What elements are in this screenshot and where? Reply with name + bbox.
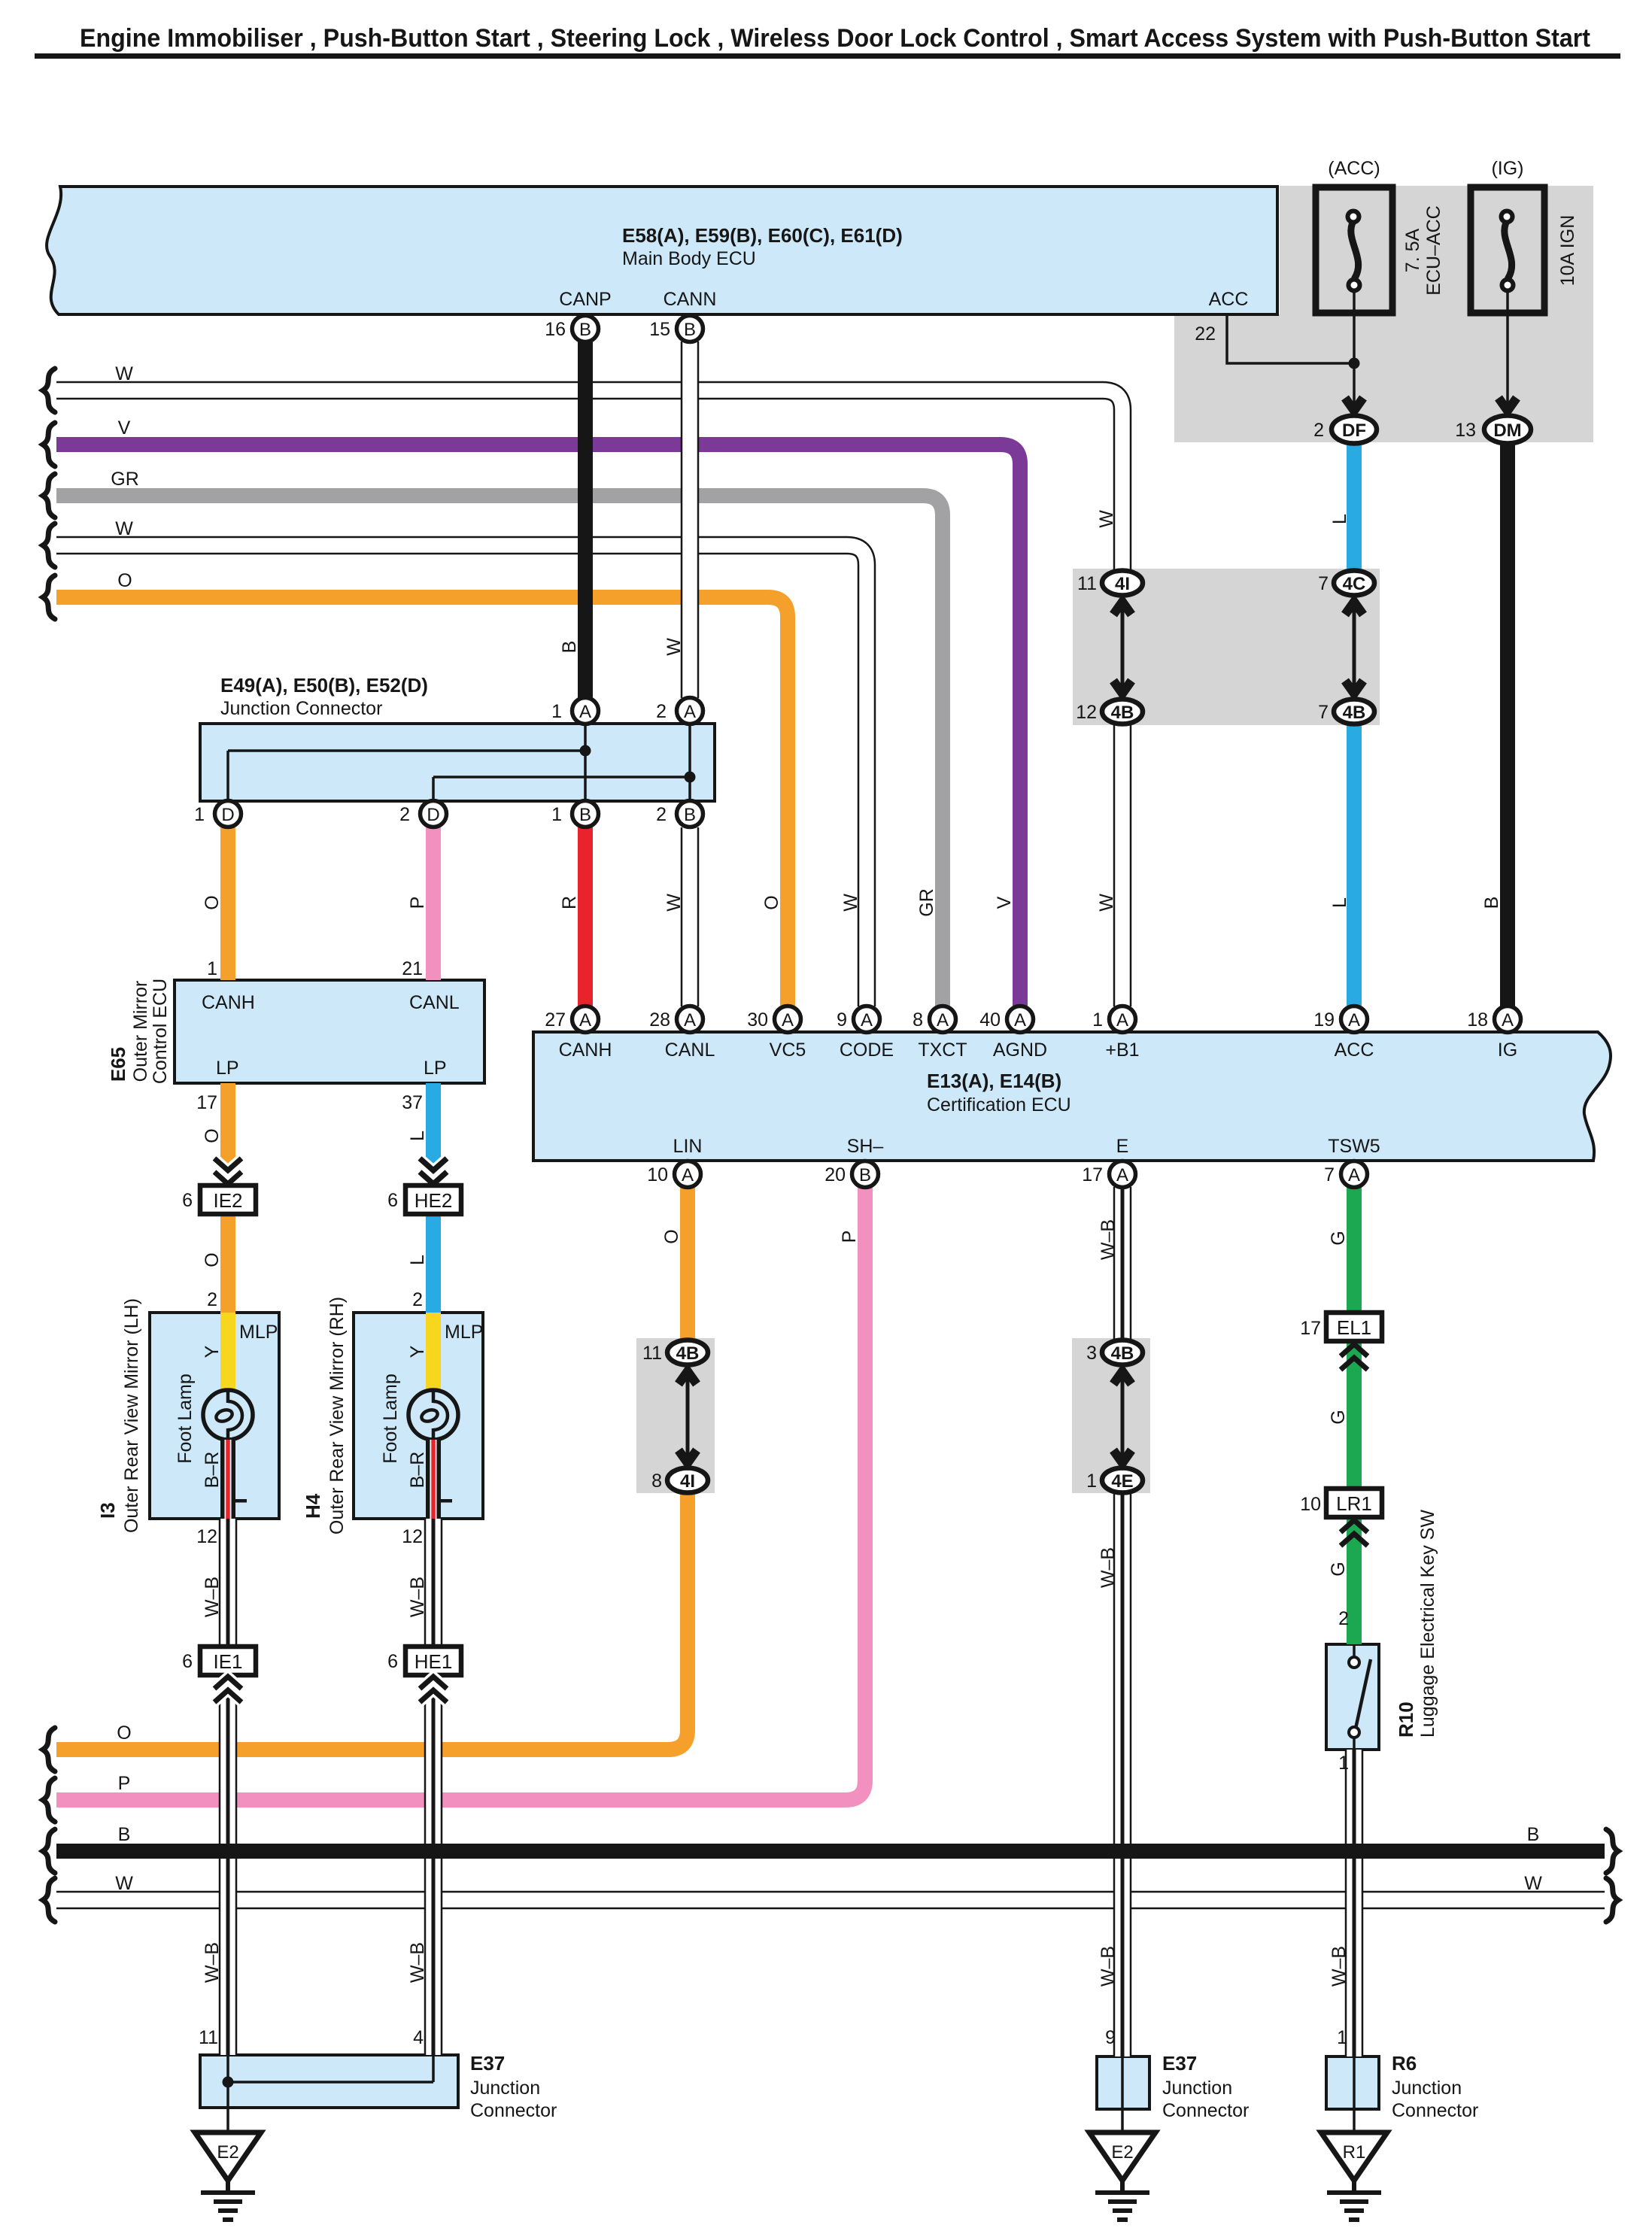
main body ECU E58/E59/E60/E61 <box>47 187 1277 314</box>
svg-text:28: 28 <box>649 1009 670 1030</box>
svg-text:27: 27 <box>545 1009 566 1030</box>
svg-text:16: 16 <box>545 319 566 340</box>
svg-text:4I: 4I <box>1115 574 1130 594</box>
svg-text:6: 6 <box>182 1190 193 1211</box>
arrowhead into DM <box>1499 398 1517 411</box>
pin 18 A IG <box>1495 1006 1521 1033</box>
svg-text:20: 20 <box>824 1164 846 1185</box>
svg-text:12: 12 <box>402 1526 423 1547</box>
pin 10 A LIN <box>675 1161 701 1188</box>
title: system heading <box>35 24 1620 59</box>
svg-text:E13(A), E14(B): E13(A), E14(B) <box>927 1070 1061 1092</box>
svg-text:W–B: W–B <box>1098 1219 1119 1260</box>
svg-text:LIN: LIN <box>673 1136 703 1157</box>
svg-text:21: 21 <box>402 958 423 979</box>
svg-text:Connector: Connector <box>1392 2100 1478 2121</box>
brace break symbols left top <box>43 369 55 619</box>
svg-text:O: O <box>117 1723 131 1744</box>
svg-text:Outer Rear View Mirror (LH): Outer Rear View Mirror (LH) <box>121 1298 142 1533</box>
svg-text:W: W <box>664 638 685 656</box>
svg-text:1: 1 <box>1338 1753 1349 1774</box>
svg-text:2: 2 <box>1338 1608 1349 1629</box>
svg-text:17: 17 <box>1300 1318 1321 1339</box>
junction connector E49 internal wires <box>228 724 696 801</box>
wire O E65 LP17 to IE2 and I3 <box>220 1083 235 1313</box>
shaded connector block 11 4B / 8 4I <box>636 1338 715 1493</box>
pin dash H4 <box>441 1499 452 1503</box>
svg-text:LR1: LR1 <box>1336 1492 1372 1515</box>
svg-text:A: A <box>1116 1165 1128 1185</box>
svg-text:Foot Lamp: Foot Lamp <box>380 1373 401 1464</box>
svg-text:W: W <box>115 363 133 384</box>
pin 19 A ACC <box>1341 1006 1368 1033</box>
wire bus B bottom (full width) <box>56 1844 1605 1859</box>
svg-text:B–R: B–R <box>202 1452 223 1489</box>
svg-text:E2: E2 <box>217 2142 238 2163</box>
svg-text:10: 10 <box>647 1164 668 1185</box>
ground R1 <box>1321 2132 1387 2220</box>
svg-text:O: O <box>202 895 223 909</box>
svg-text:+B1: +B1 <box>1105 1040 1139 1061</box>
wire G TSW5 to EL1 LR1 R10 <box>1347 1187 1362 1644</box>
wire bus W (to +B1 via 4I/4B) <box>56 390 1122 1006</box>
connector oval 12 4B <box>1102 700 1143 724</box>
svg-text:Outer Mirror: Outer Mirror <box>130 981 151 1082</box>
svg-text:IE1: IE1 <box>213 1650 242 1673</box>
svg-text:(IG): (IG) <box>1491 158 1523 179</box>
wire LIN O upper segment <box>680 1187 695 1340</box>
wire B DM to IG 18A <box>1500 443 1515 1006</box>
double arrow 4B-4E E <box>1113 1371 1131 1463</box>
svg-text:Connector: Connector <box>1162 2100 1249 2121</box>
svg-text:A: A <box>684 702 696 722</box>
svg-text:Junction: Junction <box>470 2078 540 2099</box>
chevron arrow up LR1 <box>1341 1520 1368 1546</box>
connector box EL1 <box>1326 1313 1382 1341</box>
chevron arrow up EL1 <box>1341 1344 1368 1370</box>
svg-text:L: L <box>1329 514 1350 524</box>
pin 27 A CANH <box>572 1006 599 1033</box>
svg-text:11: 11 <box>199 2027 218 2048</box>
svg-text:2: 2 <box>656 701 667 722</box>
pin dash I3 <box>235 1499 247 1503</box>
svg-text:A: A <box>861 1010 873 1030</box>
svg-text:A: A <box>937 1010 949 1030</box>
certification ECU E13/E14 <box>533 1032 1611 1161</box>
connector oval DM <box>1484 416 1531 444</box>
svg-text:B: B <box>579 320 591 340</box>
svg-text:GR: GR <box>111 469 139 490</box>
svg-text:CANP: CANP <box>559 289 611 310</box>
svg-text:Y: Y <box>407 1345 428 1358</box>
svg-text:O: O <box>202 1128 223 1143</box>
svg-text:17: 17 <box>1082 1164 1103 1185</box>
wire L E65 LP37 to HE2 and H4 <box>426 1083 441 1313</box>
svg-text:R: R <box>559 896 580 909</box>
svg-text:P: P <box>118 1773 131 1794</box>
fuse symbol ACC <box>1348 211 1360 291</box>
connector oval 7 4B <box>1334 700 1374 724</box>
svg-text:A: A <box>1502 1010 1514 1030</box>
fuse box 10A IGN <box>1471 187 1544 313</box>
svg-text:2: 2 <box>412 1289 423 1310</box>
wire fuse ACC leads <box>1353 291 1356 406</box>
fuse box 7.5A ECU-ACC <box>1316 187 1392 313</box>
svg-text:15: 15 <box>649 319 670 340</box>
shaded relay-block background (ACC/IG fuse area) <box>1174 186 1593 442</box>
svg-text:A: A <box>579 702 591 722</box>
svg-text:Luggage Electrical Key SW: Luggage Electrical Key SW <box>1417 1510 1438 1738</box>
outer rear view mirror RH H4 <box>354 1313 483 1519</box>
svg-text:18: 18 <box>1467 1009 1488 1030</box>
wire Y inside H4 <box>426 1313 441 1396</box>
foot lamp bulb I3 <box>203 1390 253 1440</box>
svg-text:4B: 4B <box>1111 703 1134 723</box>
svg-text:W–B: W–B <box>1098 1946 1119 1987</box>
svg-text:7: 7 <box>1318 573 1329 594</box>
wire W E49 2B to CANL 28A <box>681 827 700 1006</box>
chevron arrow up IE1 <box>214 1677 241 1702</box>
svg-text:LP: LP <box>216 1058 239 1079</box>
svg-text:1: 1 <box>1086 1471 1097 1492</box>
pin 8 A TXCT <box>930 1006 956 1033</box>
svg-text:1: 1 <box>207 958 217 979</box>
wire CANP B <box>578 341 593 698</box>
svg-text:CANN: CANN <box>664 289 717 310</box>
junction connector E49/E50/E52 <box>200 724 715 801</box>
svg-text:W: W <box>1096 894 1117 912</box>
junction connector R6 <box>1326 2056 1379 2109</box>
pin 1 A E49 <box>572 698 599 724</box>
svg-text:2: 2 <box>399 804 410 825</box>
svg-text:A: A <box>1348 1010 1360 1030</box>
svg-text:IE2: IE2 <box>213 1189 242 1212</box>
svg-text:4C: 4C <box>1343 574 1366 594</box>
svg-text:B: B <box>859 1165 871 1185</box>
svg-text:1: 1 <box>1337 2027 1347 2048</box>
junction connector E37 left internal <box>223 2055 434 2133</box>
svg-text:L: L <box>407 1131 428 1141</box>
pin 40 A AGND <box>1007 1006 1034 1033</box>
svg-text:A: A <box>579 1010 591 1030</box>
svg-text:B: B <box>1527 1824 1540 1845</box>
wire bus O bottom (to LIN via 4B/4I) <box>56 1492 688 1750</box>
wire bus P bottom (to SH-) <box>56 1187 865 1800</box>
double arrow 4B-4I LIN <box>679 1371 697 1463</box>
svg-text:A: A <box>782 1010 794 1030</box>
svg-text:R10: R10 <box>1395 1701 1417 1738</box>
svg-text:P: P <box>407 897 428 909</box>
svg-text:B: B <box>684 320 696 340</box>
wire fuse IG leads <box>1506 291 1509 406</box>
svg-text:V: V <box>118 417 131 439</box>
svg-text:10: 10 <box>1300 1494 1321 1515</box>
connector oval 3 4B (E) <box>1102 1340 1143 1365</box>
svg-text:R1: R1 <box>1343 2142 1366 2163</box>
outer mirror control ECU E65 <box>175 980 484 1083</box>
brace break symbols bottom right <box>1606 1829 1618 1922</box>
svg-text:W–B: W–B <box>407 1577 428 1617</box>
connector oval DF <box>1332 416 1377 444</box>
wire W-B below I3 <box>219 1519 238 2055</box>
pin 28 A CANL <box>677 1006 703 1033</box>
svg-text:VC5: VC5 <box>770 1040 806 1061</box>
svg-text:I3: I3 <box>96 1502 119 1519</box>
pin 1 B E49 <box>572 801 599 827</box>
connector box HE1 <box>405 1647 461 1675</box>
svg-text:17: 17 <box>196 1092 217 1113</box>
svg-text:W–B: W–B <box>202 1942 223 1983</box>
svg-text:4: 4 <box>413 2027 424 2048</box>
pin 1 D E49 <box>215 801 241 827</box>
svg-text:7. 5A: 7. 5A <box>1402 228 1423 272</box>
junction connector E37 (right) <box>1097 2056 1149 2109</box>
svg-text:GR: GR <box>916 888 937 917</box>
svg-text:12: 12 <box>196 1526 217 1547</box>
svg-text:8: 8 <box>651 1471 662 1492</box>
junction connector E37 right internal <box>1121 2056 1124 2134</box>
chevron arrow down IE2 <box>214 1158 241 1184</box>
fuse symbol IG <box>1502 211 1514 291</box>
svg-text:11: 11 <box>642 1343 662 1364</box>
svg-text:3: 3 <box>1086 1343 1097 1364</box>
junction dot ACC <box>1349 358 1360 369</box>
svg-text:E49(A), E50(B), E52(D): E49(A), E50(B), E52(D) <box>220 674 428 697</box>
svg-text:W: W <box>115 1873 133 1894</box>
svg-text:10A IGN: 10A IGN <box>1557 215 1578 287</box>
svg-text:O: O <box>661 1229 682 1243</box>
svg-text:TXCT: TXCT <box>918 1040 967 1061</box>
wire bus O (to VC5) <box>56 597 788 1006</box>
svg-text:W: W <box>1096 510 1117 528</box>
svg-text:4B: 4B <box>1343 703 1366 723</box>
outer rear view mirror LH I3 <box>150 1313 279 1519</box>
svg-text:R6: R6 <box>1392 2052 1417 2075</box>
svg-text:W: W <box>1524 1873 1542 1894</box>
svg-text:2: 2 <box>656 804 667 825</box>
svg-text:Control ECU: Control ECU <box>150 979 171 1084</box>
svg-text:AGND: AGND <box>993 1040 1047 1061</box>
svg-text:O: O <box>761 895 782 909</box>
connector box HE2 <box>405 1185 461 1214</box>
connector box LR1 <box>1326 1489 1382 1517</box>
svg-text:D: D <box>427 805 439 825</box>
svg-text:1: 1 <box>551 804 562 825</box>
svg-text:12: 12 <box>1076 702 1097 723</box>
svg-text:A: A <box>684 1010 696 1030</box>
svg-text:22: 22 <box>1195 323 1216 345</box>
wire bus V (to AGND) <box>56 445 1020 1006</box>
wire P E49 2D to E65 CANL <box>426 827 441 980</box>
svg-text:G: G <box>1328 1410 1349 1424</box>
wire W-B below H4 <box>424 1519 443 2055</box>
pin 17 A E <box>1110 1161 1136 1188</box>
svg-text:E65: E65 <box>107 1047 129 1082</box>
connector oval 11 4I <box>1102 571 1143 596</box>
svg-text:40: 40 <box>979 1009 1001 1030</box>
pin 20 B SH- <box>852 1161 879 1188</box>
svg-text:D: D <box>221 805 234 825</box>
svg-text:13: 13 <box>1455 420 1476 441</box>
svg-text:L: L <box>1329 897 1350 908</box>
svg-text:Connector: Connector <box>470 2100 557 2121</box>
shaded connector block 3 4B / 1 4E <box>1072 1338 1150 1493</box>
pin 30 A VC5 <box>775 1006 801 1033</box>
svg-text:E2: E2 <box>1111 2142 1133 2163</box>
svg-text:W–B: W–B <box>1098 1547 1119 1588</box>
double arrow 4C-4B <box>1345 602 1363 694</box>
svg-text:CODE: CODE <box>840 1040 894 1061</box>
wire B-R inside I3 <box>220 1440 235 1519</box>
double arrow 4I-4B <box>1113 602 1131 694</box>
svg-text:Junction Connector: Junction Connector <box>220 698 382 719</box>
svg-text:ACC: ACC <box>1209 289 1249 310</box>
svg-text:1: 1 <box>194 804 205 825</box>
svg-text:(ACC): (ACC) <box>1328 158 1380 179</box>
svg-text:B–R: B–R <box>407 1452 428 1489</box>
pin 9 A CODE <box>854 1006 880 1033</box>
svg-text:11: 11 <box>1077 573 1097 594</box>
connector oval 8 4I (LIN) <box>667 1468 708 1493</box>
svg-text:Junction: Junction <box>1162 2078 1232 2099</box>
wire bus W (to CODE) <box>56 545 867 1006</box>
wire W-B R10 to R6 <box>1345 1750 1364 2056</box>
wire B-R inside H4 <box>426 1440 441 1519</box>
svg-text:DF: DF <box>1342 420 1366 441</box>
svg-text:2: 2 <box>207 1289 217 1310</box>
svg-text:Main Body ECU: Main Body ECU <box>622 248 756 269</box>
connector box IE2 <box>200 1185 256 1214</box>
svg-text:Outer Rear View Mirror (RH): Outer Rear View Mirror (RH) <box>326 1297 348 1534</box>
chevron arrow up HE1 <box>420 1677 447 1702</box>
chevron arrow down HE2 <box>420 1158 447 1184</box>
connector box IE1 <box>200 1647 256 1675</box>
svg-text:MLP: MLP <box>445 1322 483 1343</box>
svg-text:Certification ECU: Certification ECU <box>927 1094 1071 1115</box>
svg-text:E58(A), E59(B), E60(C), E61(D): E58(A), E59(B), E60(C), E61(D) <box>622 224 903 247</box>
svg-text:8: 8 <box>913 1009 923 1030</box>
svg-text:TSW5: TSW5 <box>1328 1136 1380 1157</box>
svg-text:Engine Immobiliser , Push-Butt: Engine Immobiliser , Push-Button Start ,… <box>80 24 1590 53</box>
junction connector R6 internal <box>1353 2056 1356 2134</box>
arrowhead into DF <box>1345 398 1363 411</box>
svg-text:4B: 4B <box>1111 1343 1134 1364</box>
svg-text:HE1: HE1 <box>415 1650 453 1673</box>
svg-text:19: 19 <box>1313 1009 1335 1030</box>
svg-text:4B: 4B <box>676 1343 700 1364</box>
luggage electrical key switch R10 <box>1326 1644 1379 1750</box>
svg-text:CANL: CANL <box>665 1040 715 1061</box>
pin 2 B E49 <box>677 801 703 827</box>
svg-text:W: W <box>115 518 133 539</box>
svg-text:DM: DM <box>1493 420 1521 441</box>
svg-text:MLP: MLP <box>239 1322 278 1343</box>
svg-text:4I: 4I <box>680 1471 695 1492</box>
svg-text:B: B <box>118 1824 131 1845</box>
wire R E49 1B to CANH 27A <box>578 827 593 1006</box>
svg-text:9: 9 <box>837 1009 847 1030</box>
shaded connector block 4I/4C - 4B <box>1073 569 1380 725</box>
svg-text:4E: 4E <box>1111 1471 1133 1492</box>
pin 16 B CANP <box>572 316 599 342</box>
pin 2 D E49 <box>421 801 447 827</box>
svg-text:6: 6 <box>182 1651 193 1672</box>
svg-text:W–B: W–B <box>1329 1946 1350 1987</box>
wire O E49 1D to E65 CANH <box>220 827 235 980</box>
pin 2 A E49 <box>677 698 703 724</box>
pin 15 B CANN <box>677 316 703 342</box>
svg-text:B: B <box>579 805 591 825</box>
svg-text:V: V <box>994 896 1015 909</box>
svg-text:CANL: CANL <box>409 992 460 1013</box>
svg-text:Foot Lamp: Foot Lamp <box>175 1373 196 1464</box>
pin 7 A TSW5 <box>1341 1161 1368 1188</box>
svg-text:A: A <box>1348 1165 1360 1185</box>
svg-text:CANH: CANH <box>202 992 255 1013</box>
svg-text:G: G <box>1328 1231 1349 1245</box>
svg-text:SH–: SH– <box>847 1136 884 1157</box>
svg-text:P: P <box>839 1231 860 1243</box>
foot lamp bulb H4 <box>408 1390 458 1440</box>
svg-text:7: 7 <box>1318 702 1329 723</box>
svg-text:1: 1 <box>551 701 562 722</box>
svg-text:6: 6 <box>387 1190 398 1211</box>
svg-text:9: 9 <box>1105 2027 1116 2048</box>
svg-text:E37: E37 <box>1162 2052 1197 2075</box>
svg-text:B: B <box>684 805 696 825</box>
svg-text:G: G <box>1328 1562 1349 1576</box>
connector oval 1 4E (E) <box>1102 1468 1143 1493</box>
wire bus GR (to TXCT) <box>56 496 943 1006</box>
svg-text:L: L <box>407 1255 428 1265</box>
svg-text:W–B: W–B <box>407 1942 428 1983</box>
wire bus W bottom (full width) <box>56 1891 1605 1910</box>
brace break symbols bottom left <box>43 1728 55 1922</box>
connector oval 11 4B (LIN) <box>667 1340 708 1365</box>
wire Y inside I3 <box>220 1313 235 1396</box>
svg-text:B: B <box>1481 897 1502 909</box>
svg-text:2: 2 <box>1313 420 1324 441</box>
wire L ACC DF to 4C and 19A <box>1347 443 1362 1006</box>
svg-text:37: 37 <box>402 1092 423 1113</box>
connector oval 7 4C <box>1334 571 1374 596</box>
switch R10 <box>1349 1644 1371 1750</box>
svg-text:E: E <box>1116 1136 1129 1157</box>
svg-text:A: A <box>1116 1010 1128 1030</box>
svg-text:HE2: HE2 <box>415 1189 453 1212</box>
svg-text:CANH: CANH <box>559 1040 612 1061</box>
svg-text:A: A <box>1014 1010 1026 1030</box>
svg-text:Junction: Junction <box>1392 2078 1462 2099</box>
svg-text:A: A <box>682 1165 694 1185</box>
junction connector E37 (left) <box>200 2055 458 2108</box>
svg-text:W–B: W–B <box>202 1577 223 1617</box>
wire ACC pin22 to fuse junction <box>1227 314 1354 363</box>
ground E2 left <box>195 2132 261 2220</box>
svg-text:30: 30 <box>747 1009 768 1030</box>
wire W-B E 17A via 4B/4E to E37 <box>1113 1187 1132 2056</box>
svg-text:Y: Y <box>202 1345 223 1358</box>
svg-text:W: W <box>840 894 861 912</box>
svg-text:W: W <box>664 894 685 912</box>
svg-text:6: 6 <box>387 1651 398 1672</box>
pin 1 A +B1 <box>1110 1006 1136 1033</box>
svg-text:7: 7 <box>1324 1164 1335 1185</box>
svg-text:EL1: EL1 <box>1337 1316 1371 1339</box>
svg-text:E37: E37 <box>470 2052 505 2075</box>
svg-text:H4: H4 <box>302 1493 324 1519</box>
svg-text:ACC: ACC <box>1335 1040 1374 1061</box>
